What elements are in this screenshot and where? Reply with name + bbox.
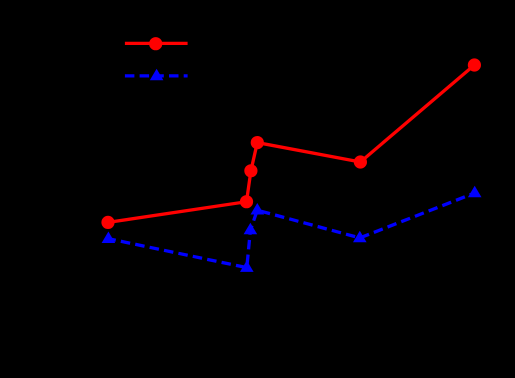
blue triangle marker p6: [468, 186, 482, 198]
red solid series line: [108, 65, 474, 222]
legend red series sample line: [125, 42, 188, 45]
red circle marker p5: [354, 155, 367, 168]
blue dashed series line: [108, 193, 474, 268]
blue triangle marker p4: [251, 203, 265, 215]
blue triangle marker p2: [240, 260, 254, 272]
red circle marker p1: [101, 216, 114, 229]
red circle marker p4: [251, 136, 264, 149]
legend blue triangle marker: [150, 69, 164, 81]
legend blue series sample dashed line: [125, 74, 188, 77]
blue triangle marker p1: [102, 232, 116, 244]
red circle marker p3: [244, 164, 257, 177]
blue triangle marker p3: [244, 223, 258, 235]
blue triangle marker p5: [353, 231, 367, 243]
red circle marker p6: [468, 58, 481, 71]
legend red circle marker: [149, 37, 162, 50]
red circle marker p2: [240, 195, 253, 208]
